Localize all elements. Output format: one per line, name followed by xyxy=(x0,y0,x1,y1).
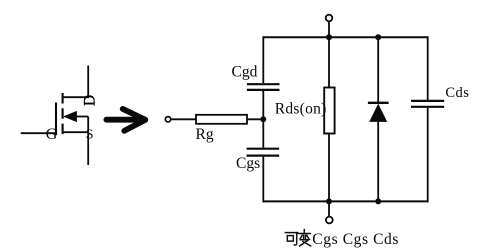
junction dot Rg node xyxy=(260,116,266,122)
node: input terminal xyxy=(165,117,170,122)
svg-text:Rg: Rg xyxy=(196,126,214,143)
diode D1 (body diode) xyxy=(368,103,389,122)
svg-text:D: D xyxy=(82,95,99,106)
node: top terminal xyxy=(326,15,333,22)
wire Rds to bottom rail xyxy=(328,134,330,202)
resistor Rg xyxy=(196,115,247,124)
svg-text:S: S xyxy=(86,128,94,143)
arrow tail wire xyxy=(77,116,89,118)
svg-text:Rds(on): Rds(on) xyxy=(275,100,327,117)
big transform arrow xyxy=(106,109,145,131)
wire diode to bottom rail xyxy=(377,121,379,201)
bottom rail wire xyxy=(263,200,427,202)
drain stub wire xyxy=(62,96,88,98)
svg-text:Cgs Cgs Cds: Cgs Cgs Cds xyxy=(312,231,399,248)
gate bar xyxy=(55,103,57,136)
left branch: wire top rail to Cgd xyxy=(262,36,264,83)
wire input to Rg xyxy=(171,118,196,120)
junction dot top-middle xyxy=(326,34,332,40)
source stub wire xyxy=(62,131,88,133)
svg-text:Cgs: Cgs xyxy=(236,155,260,172)
body arrow xyxy=(63,111,77,122)
right branch: wire rail to Cds xyxy=(427,36,429,100)
svg-text:Cds: Cds xyxy=(445,85,469,101)
caption: hanzi 可 (drawn) xyxy=(285,233,297,245)
drain lead wire xyxy=(87,66,89,99)
wire top terminal to rail xyxy=(328,21,330,37)
caption: hanzi 变 (drawn) xyxy=(298,230,310,246)
junction dot top-diode xyxy=(375,34,381,40)
junction dot bottom-middle xyxy=(326,198,332,204)
svg-text:G: G xyxy=(46,126,58,143)
capacitor Cgd xyxy=(247,84,280,90)
wire Rg to node xyxy=(247,118,263,120)
top rail wire xyxy=(263,36,427,38)
wire rail to bottom terminal xyxy=(328,201,330,216)
node: bottom terminal xyxy=(326,217,333,224)
capacitor Cgs xyxy=(247,149,280,156)
capacitor Cds xyxy=(411,101,444,107)
source lead wire xyxy=(87,132,89,165)
junction dot bottom-diode xyxy=(375,198,381,204)
channel (dashed) xyxy=(62,93,64,136)
middle branch: wire rail to Rds xyxy=(328,37,330,87)
wire Cgd to node xyxy=(262,91,264,148)
svg-text:Cgd: Cgd xyxy=(232,63,258,80)
wire Cds to bottom rail xyxy=(427,108,429,202)
resistor Rds(on) xyxy=(324,88,334,134)
diode branch: wire rail to diode xyxy=(377,37,379,103)
transistor Q1 (MOSFET symbol) xyxy=(21,66,99,166)
gate lead wire xyxy=(21,132,56,134)
source connect wire xyxy=(87,117,89,133)
wire Cgs to bottom rail xyxy=(262,157,264,203)
